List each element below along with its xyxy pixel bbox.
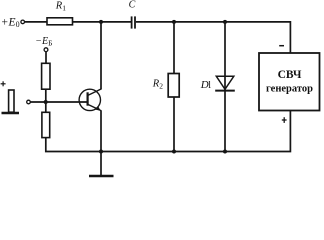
node collector-junction — [99, 20, 103, 24]
ground — [89, 152, 114, 177]
node R2 bottom — [172, 150, 176, 154]
wire emitter riser — [100, 111, 102, 152]
svg-text:СВЧ: СВЧ — [278, 69, 302, 81]
diode D1 — [215, 76, 235, 90]
wire R2 top lead — [173, 22, 175, 74]
svg-text:R2: R2 — [152, 79, 163, 91]
terminal input — [27, 100, 31, 104]
svg-text:C: C — [129, 0, 136, 11]
wire D1 bottom lead — [224, 91, 226, 152]
generator box U1 — [259, 53, 320, 111]
node R2 top — [172, 20, 176, 24]
resistor RB1 — [42, 63, 50, 89]
terminal -EB — [44, 48, 48, 52]
capacitor C — [131, 16, 133, 28]
wire — [45, 89, 47, 112]
wire — [25, 21, 47, 23]
pulse source input — [1, 81, 19, 113]
svg-text:генератор: генератор — [266, 84, 313, 95]
svg-text:+E0: +E0 — [1, 16, 20, 29]
svg-text:Dl: Dl — [200, 79, 211, 91]
resistor R1 — [47, 18, 73, 25]
label minus — [279, 45, 284, 47]
wire R2 bottom lead — [173, 97, 175, 152]
node base-junction — [44, 100, 48, 104]
wire base — [30, 101, 87, 103]
resistor R2 — [168, 74, 179, 98]
label plus — [282, 119, 287, 121]
wire — [46, 110, 291, 151]
node D1 bottom — [223, 150, 227, 154]
resistor RB2 — [42, 112, 50, 137]
node emitter-junction — [99, 150, 103, 154]
wire collector riser — [100, 22, 102, 89]
svg-text:R1: R1 — [55, 1, 66, 13]
node D1 top — [223, 20, 227, 24]
wire D1 top lead — [224, 22, 226, 91]
svg-text:−EБ: −EБ — [35, 36, 52, 48]
wire — [136, 22, 291, 53]
wire — [45, 52, 47, 64]
transistor Q1 — [79, 89, 101, 111]
wire — [73, 21, 132, 23]
terminal +E0 — [21, 20, 25, 24]
